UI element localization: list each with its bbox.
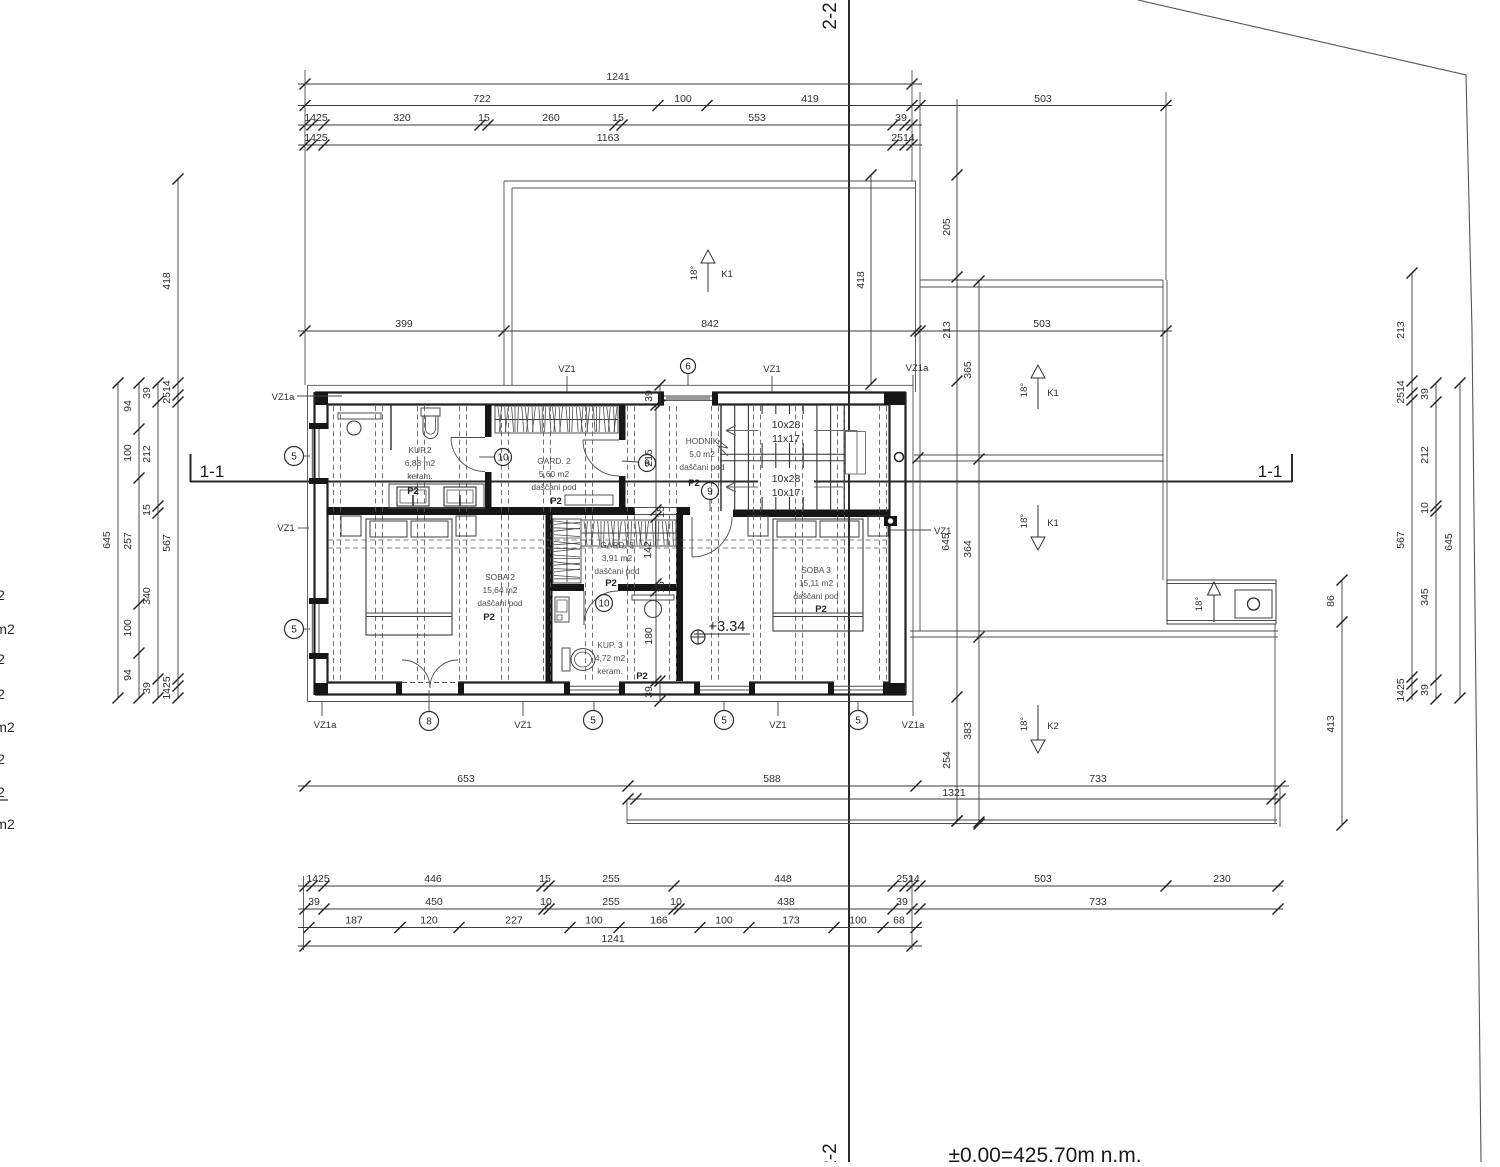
wardrobe hatch GARD3 top bbox=[581, 520, 676, 546]
svg-text:166: 166 bbox=[650, 915, 668, 927]
svg-text:180: 180 bbox=[643, 627, 655, 645]
svg-text:5: 5 bbox=[590, 716, 596, 727]
svg-text:365: 365 bbox=[962, 361, 974, 379]
room label KUP2 bbox=[405, 445, 436, 497]
right chain R1 bbox=[940, 99, 963, 827]
dashed joist lines bbox=[328, 406, 889, 681]
marker circle 9 HODNIK bbox=[622, 455, 656, 472]
svg-text:SOBA 3: SOBA 3 bbox=[801, 565, 831, 575]
exterior wall bottom with openings bbox=[314, 683, 906, 696]
svg-text:340: 340 bbox=[141, 587, 153, 605]
svg-text:SOBA 2: SOBA 2 bbox=[485, 572, 515, 582]
column marker circle on right wall bbox=[895, 453, 904, 462]
extension lines bottom bbox=[304, 786, 1281, 950]
svg-text:K1: K1 bbox=[1047, 518, 1059, 529]
svg-text:P2: P2 bbox=[815, 604, 827, 615]
terrace slope arrow 18deg bbox=[1194, 582, 1221, 622]
svg-text:10x28: 10x28 bbox=[772, 473, 801, 485]
marker circle 5 bottom1 bbox=[584, 701, 603, 730]
marker circle 5 left upper bbox=[285, 447, 311, 466]
marker circle 5 left lower bbox=[285, 620, 311, 639]
wardrobe hatch GARD3 left bbox=[553, 519, 581, 583]
svg-text:2: 2 bbox=[0, 686, 5, 702]
svg-text:KUP.2: KUP.2 bbox=[408, 445, 431, 455]
svg-text:503: 503 bbox=[1034, 93, 1052, 105]
svg-text:120: 120 bbox=[420, 915, 438, 927]
double door SOBA2 south bbox=[402, 660, 458, 688]
svg-text:10: 10 bbox=[540, 896, 552, 908]
svg-text:VZ1: VZ1 bbox=[769, 720, 786, 731]
svg-text:P2: P2 bbox=[407, 486, 419, 497]
svg-text:39: 39 bbox=[1419, 388, 1431, 400]
wall dim 39 top bbox=[643, 380, 666, 411]
svg-text:212: 212 bbox=[1419, 446, 1431, 464]
KUP2 shelf bbox=[338, 413, 381, 419]
partition GARD3-KUP3 bbox=[552, 584, 676, 591]
svg-text:15: 15 bbox=[141, 504, 153, 516]
svg-text:39: 39 bbox=[1419, 684, 1431, 696]
label VZ1a left bbox=[272, 392, 342, 403]
svg-text:413: 413 bbox=[1325, 715, 1337, 733]
svg-text:230: 230 bbox=[1213, 873, 1231, 885]
svg-text:257: 257 bbox=[122, 532, 134, 550]
exterior wall top bbox=[314, 392, 906, 405]
exterior wall right bbox=[890, 392, 906, 695]
svg-text:10: 10 bbox=[598, 599, 610, 610]
svg-text:daščani pod: daščani pod bbox=[531, 482, 577, 492]
svg-text:daščani pod: daščani pod bbox=[793, 591, 839, 601]
svg-text:588: 588 bbox=[763, 773, 781, 785]
svg-text:m2: m2 bbox=[0, 816, 15, 832]
extension lines top bbox=[305, 70, 1166, 385]
svg-text:daščani pod: daščani pod bbox=[477, 598, 523, 608]
svg-text:254: 254 bbox=[941, 751, 953, 769]
svg-text:GARD. 2: GARD. 2 bbox=[537, 456, 571, 466]
svg-text:10: 10 bbox=[497, 453, 509, 464]
svg-text:GARD. 3: GARD. 3 bbox=[600, 540, 634, 550]
svg-text:10x28: 10x28 bbox=[772, 419, 801, 431]
svg-text:320: 320 bbox=[393, 112, 411, 124]
svg-text:5,0 m2: 5,0 m2 bbox=[689, 449, 715, 459]
svg-text:1425: 1425 bbox=[1395, 678, 1407, 702]
label VZ1 top1 bbox=[558, 364, 575, 392]
svg-text:5: 5 bbox=[291, 452, 297, 463]
deck outline lower bbox=[627, 624, 1277, 824]
svg-text:15: 15 bbox=[655, 581, 667, 593]
slope arrow K1 upper roof bbox=[689, 250, 733, 292]
svg-text:68: 68 bbox=[893, 915, 905, 927]
svg-text:1241: 1241 bbox=[606, 71, 630, 83]
svg-text:2514: 2514 bbox=[896, 873, 920, 885]
svg-text:keram.: keram. bbox=[407, 471, 433, 481]
svg-text:6,88 m2: 6,88 m2 bbox=[405, 458, 436, 468]
svg-text:438: 438 bbox=[777, 896, 795, 908]
marker circle 8 bottom bbox=[420, 690, 439, 731]
svg-text:212: 212 bbox=[141, 445, 153, 463]
svg-text:3,91 m2: 3,91 m2 bbox=[602, 553, 633, 563]
svg-text:18°: 18° bbox=[1019, 383, 1030, 398]
room label GARD3 bbox=[594, 540, 640, 589]
svg-text:364: 364 bbox=[962, 540, 974, 558]
svg-text:18°: 18° bbox=[1019, 514, 1030, 529]
svg-text:383: 383 bbox=[962, 722, 974, 740]
svg-text:15: 15 bbox=[539, 873, 551, 885]
left chain walls bbox=[141, 378, 164, 704]
svg-text:100: 100 bbox=[674, 93, 692, 105]
partition KUP2-GARD2 bbox=[485, 405, 492, 437]
svg-text:842: 842 bbox=[701, 318, 719, 330]
slope arrow K2 deck bbox=[1019, 705, 1059, 753]
svg-text:213: 213 bbox=[941, 321, 953, 339]
svg-text:10x17: 10x17 bbox=[772, 487, 801, 499]
svg-text:567: 567 bbox=[1395, 531, 1407, 549]
dimension 418 left bbox=[161, 174, 184, 384]
svg-text:4,72 m2: 4,72 m2 bbox=[595, 653, 626, 663]
svg-text:K1: K1 bbox=[1047, 388, 1059, 399]
svg-text:653: 653 bbox=[457, 773, 475, 785]
dimension row top 1241 bbox=[298, 71, 922, 90]
partition GARD3 right bbox=[676, 513, 683, 681]
svg-text:345: 345 bbox=[1419, 588, 1431, 606]
svg-text:VZ1: VZ1 bbox=[514, 720, 531, 731]
marker circle 10 GARD3 bbox=[596, 595, 613, 612]
svg-text:15: 15 bbox=[655, 506, 667, 518]
svg-text:399: 399 bbox=[395, 318, 413, 330]
svg-text:2: 2 bbox=[0, 587, 5, 603]
svg-text:18°: 18° bbox=[1019, 717, 1030, 732]
svg-text:5: 5 bbox=[291, 625, 297, 636]
room label HODNIK bbox=[679, 436, 725, 489]
svg-text:39: 39 bbox=[643, 390, 655, 402]
svg-text:94: 94 bbox=[122, 400, 134, 412]
chimney block on right wall bbox=[884, 516, 897, 526]
room label KUP3 bbox=[595, 640, 648, 682]
svg-text:5: 5 bbox=[855, 716, 861, 727]
svg-text:733: 733 bbox=[1089, 773, 1107, 785]
svg-text:18°: 18° bbox=[1194, 597, 1205, 612]
svg-text:P2: P2 bbox=[688, 478, 700, 489]
svg-text:39: 39 bbox=[643, 686, 655, 698]
svg-text:1425: 1425 bbox=[304, 132, 328, 144]
svg-text:daščani pod: daščani pod bbox=[594, 566, 640, 576]
svg-text:503: 503 bbox=[1033, 318, 1051, 330]
dimension row B bottom bbox=[298, 896, 1284, 915]
dimension row C bottom bbox=[298, 915, 922, 934]
svg-text:100: 100 bbox=[585, 915, 603, 927]
svg-text:418: 418 bbox=[161, 272, 173, 290]
svg-text:2: 2 bbox=[0, 651, 5, 667]
svg-text:P2: P2 bbox=[605, 578, 617, 589]
label VZ1 top2 bbox=[763, 364, 780, 392]
svg-text:2514: 2514 bbox=[161, 380, 173, 404]
svg-text:100: 100 bbox=[715, 915, 733, 927]
svg-text:227: 227 bbox=[505, 915, 523, 927]
dimension row mid 399-842-503 bbox=[298, 318, 1172, 337]
svg-text:213: 213 bbox=[1395, 321, 1407, 339]
svg-text:1321: 1321 bbox=[942, 787, 966, 799]
KUP2 sink bbox=[347, 421, 361, 435]
svg-text:m2: m2 bbox=[0, 621, 15, 637]
svg-text:419: 419 bbox=[801, 93, 819, 105]
svg-text:1-1: 1-1 bbox=[1258, 462, 1283, 481]
nightstands SOBA3 bbox=[748, 516, 888, 536]
svg-text:733: 733 bbox=[1089, 896, 1107, 908]
dimension row A bottom bbox=[298, 873, 1284, 892]
svg-text:10: 10 bbox=[670, 896, 682, 908]
door KUP3 bbox=[584, 591, 618, 625]
svg-text:1425: 1425 bbox=[161, 676, 173, 700]
room label SOBA3 bbox=[793, 565, 839, 615]
svg-text:255: 255 bbox=[602, 873, 620, 885]
svg-text:1-1: 1-1 bbox=[200, 462, 225, 481]
svg-text:418: 418 bbox=[855, 271, 867, 289]
svg-text:18°: 18° bbox=[689, 266, 700, 281]
interior dim chain HODNIK-GARD3-KUP3 bbox=[642, 400, 667, 687]
svg-text:K1: K1 bbox=[721, 269, 733, 280]
svg-text:2-2: 2-2 bbox=[820, 2, 841, 29]
dimension row D bottom 1241 bbox=[298, 933, 922, 952]
KUP2 toilet bbox=[421, 408, 440, 439]
exterior wall left with two windows bbox=[309, 392, 328, 695]
dimension row top 722-100-419-503 bbox=[298, 93, 1172, 111]
svg-text:100: 100 bbox=[849, 915, 867, 927]
svg-text:15: 15 bbox=[612, 112, 624, 124]
label VZ1 bottom2 bbox=[769, 702, 786, 731]
KUP2 shower partition bbox=[390, 405, 392, 450]
room label SOBA2 bbox=[477, 572, 523, 623]
svg-text:450: 450 bbox=[425, 896, 443, 908]
eave outline around plan bbox=[308, 385, 914, 701]
marker circle 5 bottom3 bbox=[849, 701, 868, 730]
slope arrow K1 right roof lower bbox=[1019, 505, 1059, 550]
property boundary line bbox=[1138, 0, 1481, 1162]
svg-text:KUP. 3: KUP. 3 bbox=[597, 640, 623, 650]
svg-text:VZ1: VZ1 bbox=[277, 523, 294, 534]
svg-text:HODNIK: HODNIK bbox=[686, 436, 719, 446]
deck tick marks bbox=[913, 453, 985, 828]
bed SOBA3 bbox=[773, 519, 863, 631]
svg-text:567: 567 bbox=[161, 534, 173, 552]
svg-text:187: 187 bbox=[345, 915, 363, 927]
dimension 86-413 bbox=[1325, 575, 1348, 831]
svg-text:142: 142 bbox=[642, 541, 654, 559]
svg-text:daščani pod: daščani pod bbox=[679, 462, 725, 472]
svg-text:2: 2 bbox=[0, 784, 5, 800]
svg-text:2: 2 bbox=[0, 751, 5, 767]
svg-text:VZ1: VZ1 bbox=[763, 364, 780, 375]
svg-text:39: 39 bbox=[896, 896, 908, 908]
section line 2-2 bbox=[820, 0, 849, 1167]
svg-text:215: 215 bbox=[643, 449, 655, 467]
svg-text:2-2: 2-2 bbox=[820, 1143, 841, 1162]
right chain R2 bbox=[962, 276, 985, 830]
svg-text:6: 6 bbox=[685, 362, 691, 373]
door HODNIK-SOBA3 bbox=[692, 517, 732, 557]
svg-text:VZ1a: VZ1a bbox=[906, 363, 929, 374]
svg-text:P2: P2 bbox=[636, 671, 648, 682]
door GARD2 bbox=[583, 440, 619, 476]
KUP3 toilet bbox=[562, 648, 595, 671]
svg-text:VZ1a: VZ1a bbox=[314, 720, 337, 731]
level mark +3.34 bbox=[691, 619, 750, 644]
partition GARD2-HODNIK bbox=[619, 405, 626, 440]
svg-text:39: 39 bbox=[895, 112, 907, 124]
dimension 418 at section bbox=[855, 170, 877, 390]
svg-text:15,64 m2: 15,64 m2 bbox=[483, 585, 518, 595]
roof outline upper bbox=[504, 181, 916, 392]
svg-text:722: 722 bbox=[473, 93, 491, 105]
svg-text:m2: m2 bbox=[0, 719, 15, 735]
left chain 645 bbox=[101, 378, 124, 704]
left chain total bbox=[161, 378, 184, 704]
svg-text:5: 5 bbox=[721, 716, 727, 727]
svg-text:260: 260 bbox=[542, 112, 560, 124]
svg-text:9: 9 bbox=[707, 487, 713, 498]
svg-text:K2: K2 bbox=[1047, 721, 1059, 732]
label VZ1 right bbox=[890, 526, 951, 537]
svg-text:P2: P2 bbox=[550, 496, 562, 507]
svg-text:15: 15 bbox=[478, 112, 490, 124]
svg-text:15,11 m2: 15,11 m2 bbox=[799, 578, 834, 588]
dimension row top 1163 bbox=[298, 132, 922, 151]
dimension row 1321 bbox=[623, 787, 1286, 805]
svg-text:10: 10 bbox=[1419, 502, 1431, 514]
KUP3 washbasin bbox=[632, 595, 674, 618]
svg-text:39: 39 bbox=[141, 682, 153, 694]
svg-text:P2: P2 bbox=[483, 612, 495, 623]
svg-text:645: 645 bbox=[940, 533, 952, 551]
marker circle 9 lower bbox=[702, 483, 719, 512]
partition SOBA2-GARD3 bbox=[546, 507, 553, 683]
label VZ1 left bbox=[277, 523, 309, 534]
roof outline right bbox=[910, 92, 1278, 637]
wall dim 39 bottom bbox=[643, 676, 666, 707]
svg-text:645: 645 bbox=[1443, 533, 1455, 551]
svg-text:645: 645 bbox=[101, 531, 113, 549]
svg-text:100: 100 bbox=[122, 444, 134, 462]
svg-text:173: 173 bbox=[782, 915, 800, 927]
svg-text:39: 39 bbox=[141, 387, 153, 399]
nightstands SOBA2 bbox=[341, 516, 476, 536]
svg-text:5,60 m2: 5,60 m2 bbox=[539, 469, 570, 479]
svg-text:8: 8 bbox=[426, 717, 432, 728]
bed SOBA2 bbox=[366, 519, 452, 635]
dimension row top fine bbox=[298, 112, 922, 131]
label VZ1a bottom right bbox=[902, 702, 925, 731]
legend fragments left edge bbox=[0, 587, 15, 832]
svg-text:205: 205 bbox=[941, 218, 953, 236]
KUP3 washing machine bbox=[555, 597, 569, 622]
dimension row 653-588-733 bbox=[298, 773, 1289, 792]
wardrobe hatch GARD2 bbox=[495, 406, 618, 433]
svg-text:39: 39 bbox=[308, 896, 320, 908]
marker circle 5 bottom2 bbox=[715, 701, 734, 730]
label VZ1a top right bbox=[906, 363, 929, 385]
stairs bbox=[718, 405, 866, 511]
svg-text:446: 446 bbox=[424, 873, 442, 885]
svg-text:553: 553 bbox=[748, 112, 766, 124]
svg-text:1241: 1241 bbox=[601, 933, 625, 945]
svg-text:100: 100 bbox=[122, 619, 134, 637]
svg-text:+3.34: +3.34 bbox=[709, 619, 746, 635]
terrace box with chimney bbox=[1167, 580, 1276, 624]
svg-text:255: 255 bbox=[602, 896, 620, 908]
svg-text:86: 86 bbox=[1325, 595, 1337, 607]
svg-text:448: 448 bbox=[774, 873, 792, 885]
room label GARD2 bbox=[531, 456, 613, 507]
svg-text:2514: 2514 bbox=[1395, 380, 1407, 404]
svg-text:keram.: keram. bbox=[597, 666, 623, 676]
slope arrow K1 right roof upper bbox=[1019, 365, 1059, 409]
left chain rooms bbox=[122, 378, 145, 704]
marker circle 10 GARD2 bbox=[479, 449, 512, 466]
svg-text:VZ1a: VZ1a bbox=[272, 392, 295, 403]
door KUP2 bbox=[451, 438, 485, 472]
section line 1-1 bbox=[190, 454, 1292, 482]
marker circle 6 top bbox=[681, 359, 696, 386]
svg-text:VZ1: VZ1 bbox=[558, 364, 575, 375]
svg-text:94: 94 bbox=[122, 669, 134, 681]
partition horizontal mid bbox=[327, 507, 890, 517]
svg-text:1425: 1425 bbox=[304, 112, 328, 124]
svg-text:±0.00=425.70m n.m.: ±0.00=425.70m n.m. bbox=[948, 1144, 1141, 1162]
svg-text:1163: 1163 bbox=[597, 132, 620, 144]
label VZ1 bottom1 bbox=[514, 702, 531, 731]
svg-text:VZ1a: VZ1a bbox=[902, 720, 925, 731]
KUP2 vanity with two basins bbox=[389, 484, 484, 508]
far right chain C bbox=[1443, 378, 1466, 704]
svg-text:2514: 2514 bbox=[891, 132, 915, 144]
svg-text:1425: 1425 bbox=[306, 873, 330, 885]
svg-text:503: 503 bbox=[1034, 873, 1052, 885]
label VZ1a bottom left bbox=[314, 702, 337, 731]
far right chain B bbox=[1419, 378, 1442, 705]
far right chain A bbox=[1395, 268, 1418, 702]
